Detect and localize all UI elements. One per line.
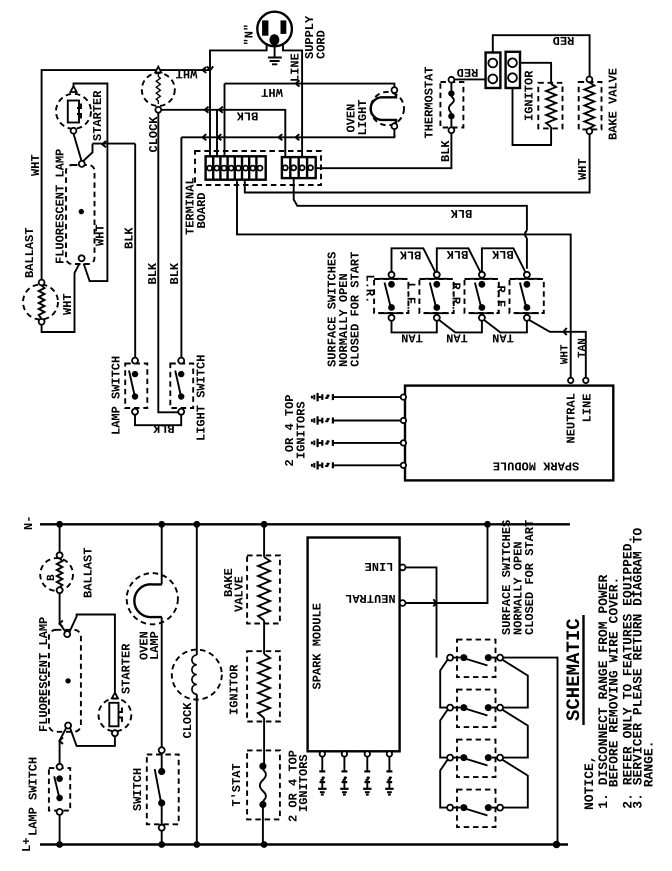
- svg-text:IGNITOR: IGNITOR: [228, 664, 242, 715]
- wire: lamp top pin to loop: [84, 144, 93, 161]
- svg-text:LINE: LINE: [289, 53, 303, 82]
- spark module box (wiring): [405, 386, 613, 481]
- svg-text:FLUORESCENT LAMP: FLUORESCENT LAMP: [54, 149, 68, 264]
- svg-text:BLK: BLK: [399, 248, 421, 262]
- svg-text:RED: RED: [553, 33, 575, 47]
- surface switch 1 (schematic): [457, 640, 496, 678]
- svg-text:STARTER: STARTER: [91, 90, 105, 141]
- svg-text:CLOCK: CLOCK: [147, 116, 161, 153]
- ballast (schematic): [40, 558, 73, 591]
- surface switch 3 (schematic): [457, 740, 496, 778]
- wire: TAN chain sw1-sw2: [392, 321, 437, 333]
- svg-text:WHT: WHT: [560, 344, 572, 364]
- wire: sw1 right to L+ rail: [503, 658, 557, 845]
- top ignitor wire 2: [312, 416, 401, 424]
- ballast B1 (wiring): [23, 285, 58, 320]
- svg-text:BLK: BLK: [439, 140, 453, 162]
- light switch SW2 (wiring): [170, 364, 193, 409]
- wire: lamp top to starter loop: [70, 615, 115, 693]
- svg-text:LINE: LINE: [581, 393, 595, 422]
- svg-text:FLUORESCENT LAMP: FLUORESCENT LAMP: [37, 617, 51, 732]
- svg-text:WHT: WHT: [576, 158, 590, 180]
- wire: plug N side down to strip1 (riser R1): [210, 43, 267, 156]
- svg-text:BLK: BLK: [168, 262, 182, 284]
- wire: thermostat to connector 1: [454, 78, 485, 80]
- wire 3: strip1 to spark module NEUTRAL WHT: [237, 180, 571, 378]
- svg-text:WHT: WHT: [94, 224, 108, 246]
- svg-text:BALLAST: BALLAST: [23, 228, 37, 278]
- starter S1 (wiring): [56, 94, 91, 129]
- wire: ballast bottom to lamp bottom-left pin: [42, 264, 80, 333]
- ignitor (schematic): [247, 651, 280, 721]
- junction chevrons on riser R1: [207, 66, 213, 70]
- svg-text:RANGE.: RANGE.: [641, 740, 656, 787]
- svg-text:SPARK MODULE: SPARK MODULE: [493, 458, 579, 472]
- svg-text:CORD: CORD: [315, 30, 329, 59]
- svg-text:WHT: WHT: [29, 154, 43, 176]
- wire: TAN chain sw3-sw4: [484, 320, 527, 333]
- schematic ignitor symbol 4: [385, 757, 393, 795]
- wire: N rail to clock: [196, 524, 198, 655]
- bake valve V1 (wiring): [579, 82, 602, 129]
- svg-text:BOARD: BOARD: [195, 192, 209, 228]
- spark module bottom terminals: [320, 751, 325, 756]
- wire: TAN chain sw2-sw3: [439, 320, 482, 333]
- svg-text:N-: N-: [22, 516, 36, 530]
- fluorescent lamp FL1 (wiring): [66, 165, 95, 264]
- wire: right chain sw3-sw4: [503, 760, 528, 808]
- svg-text:BALLAST: BALLAST: [82, 548, 96, 598]
- svg-text:CLOCK: CLOCK: [181, 702, 195, 739]
- svg-text:BLK: BLK: [236, 109, 258, 123]
- wire: BLK chain sw1-sw2: [392, 248, 436, 272]
- svg-text:IGNITORS: IGNITORS: [297, 754, 311, 812]
- svg-text:L.F.: L.F.: [404, 283, 418, 312]
- schematic ignitor symbol 2: [340, 757, 348, 795]
- bus wire y137: [181, 134, 394, 137]
- wire: left chain sw1-sw2: [440, 659, 448, 707]
- lamp switch SW1 (wiring): [125, 364, 147, 409]
- t'stat (schematic): [247, 750, 280, 819]
- wire: clock to L rail: [196, 694, 198, 844]
- svg-text:BLK: BLK: [450, 206, 472, 220]
- connector J1: [486, 53, 501, 89]
- wire: oven lamp to switch: [161, 617, 163, 747]
- junction chevron: [102, 141, 106, 147]
- svg-text:NEUTRAL: NEUTRAL: [565, 393, 579, 443]
- wire: connector1 top RED to bake valve: [493, 35, 590, 76]
- SCHEMATIC underline: [582, 615, 584, 725]
- wire 2: strip2 to surface switches BLK: [294, 178, 527, 230]
- schematic ignitor symbol 1: [318, 757, 326, 795]
- wire: lamp switch bottom to light switch bottom: [135, 415, 181, 426]
- svg-text:TAN: TAN: [492, 330, 514, 344]
- starter (schematic): [99, 699, 132, 732]
- svg-text:NEUTRAL: NEUTRAL: [345, 591, 395, 605]
- oven lamp switch (schematic): [147, 755, 179, 825]
- surface switch R.R. (wiring): [465, 279, 499, 313]
- wire: connector2 bottom to ignitor bottom: [513, 88, 552, 145]
- wire: starter bottom to lamp top pin: [74, 134, 82, 161]
- ground symbol: [268, 45, 282, 64]
- surface switch 4 (schematic): [457, 790, 496, 828]
- ignitor R1 (wiring): [538, 83, 562, 129]
- svg-text:LIGHT SWITCH: LIGHT SWITCH: [195, 355, 209, 441]
- clock (schematic): [172, 650, 222, 700]
- top ignitor wire 3: [312, 439, 401, 447]
- wire: BLK chain sw2-sw3: [437, 248, 481, 272]
- wire: right chain sw1-sw2: [503, 660, 528, 708]
- svg-text:NOTICE,: NOTICE,: [582, 755, 597, 810]
- terminal strip 2: [282, 157, 316, 178]
- svg-text:TAN: TAN: [446, 330, 468, 344]
- svg-text:LAMP SWITCH: LAMP SWITCH: [26, 757, 40, 836]
- svg-text:WHT: WHT: [61, 293, 75, 315]
- bake valve (schematic): [247, 555, 280, 623]
- svg-text:BLK: BLK: [123, 227, 137, 249]
- fluorescent lamp (schematic): [49, 630, 81, 732]
- svg-text:SCHEMATIC: SCHEMATIC: [563, 618, 585, 721]
- svg-text:IGNITOR: IGNITOR: [523, 70, 537, 121]
- terminal board dashed box: [195, 151, 321, 185]
- NEUTRAL terminal: [400, 600, 406, 606]
- oven light LT1: [371, 92, 404, 125]
- surface switch 2 (schematic): [457, 690, 496, 728]
- wire: NEUTRAL to N rail: [406, 524, 488, 603]
- wire: bake valve to ignitor: [263, 621, 265, 655]
- svg-text:T'STAT: T'STAT: [230, 763, 244, 806]
- svg-text:R.R.: R.R.: [449, 283, 463, 312]
- wire: N rail to bake valve: [263, 524, 265, 557]
- wire: lamp bottom to lamp switch: [60, 728, 66, 764]
- svg-text:SPARK MODULE: SPARK MODULE: [310, 603, 324, 689]
- wire 1: strip1 to bake valve WHT: [245, 134, 590, 192]
- junction chevrons on clock line: [205, 107, 209, 113]
- wire: WHT run y84: [225, 84, 395, 88]
- wire C: bus to light switch top: [180, 137, 182, 357]
- connector J2: [506, 52, 520, 88]
- svg-text:LAMP: LAMP: [148, 631, 162, 660]
- wire: left chain sw2-sw3: [440, 709, 448, 757]
- wire: middle riser into strip1: [216, 110, 218, 157]
- surface switch L.R. (wiring): [374, 279, 408, 313]
- svg-text:TAN: TAN: [577, 338, 589, 358]
- svg-text:LINE: LINE: [365, 559, 394, 573]
- wire: N rail to oven lamp: [161, 524, 163, 584]
- svg-text:LIGHT: LIGHT: [356, 99, 370, 135]
- svg-text:LAMP SWITCH: LAMP SWITCH: [110, 356, 124, 435]
- terminal strip 1: [206, 156, 266, 179]
- svg-text:BLK: BLK: [446, 247, 468, 261]
- svg-text:WHT: WHT: [176, 67, 198, 81]
- svg-text:THERMOSTAT: THERMOSTAT: [423, 66, 437, 138]
- node: rail junction dots: [56, 521, 63, 528]
- svg-text:BEFORE REMOVING WIRE COVER.: BEFORE REMOVING WIRE COVER.: [606, 577, 621, 788]
- top ignitor wire 4: [312, 461, 401, 469]
- svg-text:RED: RED: [457, 65, 479, 79]
- svg-text:WHT: WHT: [261, 85, 283, 99]
- wire: BLK chain sw3-sw4: [482, 248, 526, 272]
- spark module left terminals: [401, 394, 406, 399]
- svg-text:"N": "N": [243, 24, 257, 46]
- wire: outer left WHT wire and top run: [42, 70, 210, 280]
- svg-text:B: B: [46, 574, 58, 581]
- wire: clock bottom WHT run to strip2: [161, 110, 285, 157]
- wire: N- rail: [40, 523, 570, 525]
- wire B: clock bottom to light switch bottom node: [158, 113, 179, 413]
- clock M1 (wiring): [142, 73, 175, 106]
- junction chevron on WHT y84: [296, 80, 300, 86]
- wire: L+ rail: [40, 843, 568, 845]
- svg-text:R.F.: R.F.: [494, 286, 508, 315]
- surface switch L.F. (wiring): [419, 279, 453, 313]
- svg-text:CLOSED FOR START: CLOSED FOR START: [523, 520, 537, 635]
- lamp switch (schematic): [49, 768, 70, 811]
- svg-text:VALVE: VALVE: [233, 576, 247, 612]
- wire: starter loop to WHT riser: [74, 84, 108, 144]
- wire: TAN from sw4 to spark module LINE: [529, 320, 586, 378]
- wire: WHT riser down to lamp bottom-right pin: [84, 144, 108, 282]
- wire: ballast to fluorescent lamp top: [60, 593, 66, 631]
- wire: N rail to ballast: [59, 524, 61, 552]
- supply cord plug P1: [257, 12, 292, 47]
- wire A: BLK to lamp switch: [134, 144, 136, 358]
- wire: starter bottom to lamp bottom: [70, 728, 115, 746]
- oven lamp (schematic): [127, 573, 178, 624]
- wire: t'stat to L rail: [262, 808, 264, 845]
- svg-text:L+: L+: [20, 838, 34, 852]
- svg-text:STARTER: STARTER: [120, 643, 134, 694]
- svg-text:SWITCH: SWITCH: [131, 768, 145, 811]
- thermostat TS1: [440, 82, 463, 128]
- LINE terminal: [400, 565, 406, 571]
- wire: left chain sw3-sw4: [440, 759, 448, 807]
- junction chevrons on bus: [203, 134, 207, 140]
- wire: ignitor to t'stat: [263, 718, 265, 763]
- wire: LINE to surface switch chain: [406, 567, 437, 657]
- spark module box (schematic): [308, 538, 400, 752]
- wire: strip2 right to thermostat BLK: [316, 133, 452, 168]
- wire: right chain sw2-sw3: [503, 710, 528, 758]
- svg-text:CLOSED FOR START: CLOSED FOR START: [348, 252, 362, 367]
- top ignitor wire 1: [312, 393, 401, 401]
- svg-text:BAKE VALVE: BAKE VALVE: [607, 68, 621, 140]
- svg-text:L.R.: L.R.: [363, 275, 377, 304]
- svg-text:IGNITORS: IGNITORS: [295, 401, 309, 459]
- svg-text:BLK: BLK: [152, 421, 174, 435]
- junction chevron on TAN at WHT crossing: [563, 328, 566, 335]
- junction chevron at crossing: [433, 599, 436, 606]
- svg-text:BLK: BLK: [146, 262, 160, 284]
- svg-text:BLK: BLK: [491, 247, 513, 261]
- wire: plug LINE side down and WHT run: [283, 43, 302, 157]
- surface switch R.F. (wiring): [510, 279, 544, 313]
- svg-text:TAN: TAN: [401, 330, 423, 344]
- schematic ignitor symbol 3: [363, 757, 371, 795]
- wire: connector2 top to ignitor: [520, 63, 551, 84]
